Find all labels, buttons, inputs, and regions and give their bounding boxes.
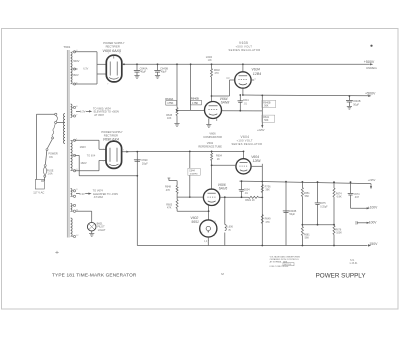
svg-text:FOR CONDITIONS.: FOR CONDITIONS.	[270, 266, 289, 268]
svg-text:5651: 5651	[191, 220, 199, 224]
svg-text:AT NORMAL. SEE: AT NORMAL. SEE	[270, 260, 288, 263]
svg-text:6.3V: 6.3V	[83, 67, 88, 70]
svg-text:UNREG: UNREG	[366, 66, 378, 70]
svg-text:C690: C690	[141, 158, 148, 162]
svg-text:40µF: 40µF	[161, 70, 167, 74]
svg-text:-100V: -100V	[368, 220, 378, 224]
svg-text:470: 470	[215, 72, 220, 75]
svg-text:20µF: 20µF	[142, 162, 148, 166]
svg-text:R640B: R640B	[191, 97, 199, 101]
svg-text:56K: 56K	[264, 105, 269, 107]
svg-text:560V: 560V	[72, 73, 78, 77]
svg-text:S.N.: S.N.	[350, 259, 355, 262]
svg-text:6AU6: 6AU6	[219, 187, 228, 191]
svg-text:POWER SUPPLY: POWER SUPPLY	[316, 273, 367, 280]
svg-text:56K: 56K	[305, 237, 310, 240]
svg-text:+225V: +225V	[257, 128, 265, 132]
svg-text:40µF: 40µF	[140, 70, 146, 74]
svg-text:V634: V634	[251, 67, 259, 71]
svg-text:+500V: +500V	[364, 60, 375, 64]
svg-text:1.6A: 1.6A	[48, 173, 53, 176]
svg-text:50µF: 50µF	[353, 103, 359, 107]
svg-text:+100 VOLT: +100 VOLT	[237, 138, 253, 142]
svg-text:560V: 560V	[73, 59, 79, 63]
svg-text:V635: V635	[239, 41, 248, 45]
svg-text:V604: V604	[241, 135, 250, 139]
svg-text:R641: R641	[263, 117, 269, 119]
svg-text:LIGHT: LIGHT	[98, 228, 106, 232]
svg-text:0.25µF: 0.25µF	[320, 206, 328, 208]
svg-text:6.3V: 6.3V	[79, 192, 85, 196]
svg-text:+100V: +100V	[368, 206, 378, 210]
svg-text:.047: .047	[354, 196, 359, 199]
svg-text:56K: 56K	[264, 120, 269, 122]
svg-text:10h: 10h	[208, 59, 213, 62]
svg-text:6.8K: 6.8K	[337, 196, 342, 199]
svg-text:COMPARATOR: COMPARATOR	[203, 135, 222, 139]
svg-text:R640A: R640A	[165, 97, 173, 101]
svg-text:SERIES REGULATOR: SERIES REGULATOR	[229, 48, 261, 52]
svg-text:39K: 39K	[265, 189, 270, 192]
svg-text:+500V: +500V	[365, 91, 376, 95]
svg-text:47K: 47K	[166, 189, 171, 192]
svg-text:175K: 175K	[192, 101, 198, 105]
svg-text:R601 1K: R601 1K	[245, 199, 255, 202]
svg-text:56K: 56K	[305, 195, 310, 198]
svg-text:AT MAX: AT MAX	[94, 195, 104, 199]
svg-text:175K: 175K	[167, 101, 173, 105]
svg-text:117 V AC: 117 V AC	[33, 190, 44, 194]
svg-text:47K: 47K	[167, 207, 172, 210]
svg-text:C640B: C640B	[353, 99, 361, 103]
svg-text:C644: C644	[189, 170, 195, 172]
svg-text:V606: V606	[209, 131, 216, 135]
svg-text:AT V697: AT V697	[94, 113, 104, 117]
svg-text:160V: 160V	[80, 145, 86, 149]
svg-text:50µF: 50µF	[289, 213, 295, 216]
svg-text:T601: T601	[63, 45, 70, 49]
svg-text:100MFD: 100MFD	[190, 173, 199, 175]
svg-text:1,4,7: 1,4,7	[204, 241, 210, 243]
svg-text:V602: V602	[207, 141, 214, 145]
svg-text:C675: C675	[320, 202, 327, 205]
svg-text:TYPE 181 TIME-MARK GENERATOR: TYPE 181 TIME-MARK GENERATOR	[52, 272, 137, 277]
svg-text:TO 6X4: TO 6X4	[87, 155, 96, 158]
svg-text:47K: 47K	[265, 221, 270, 224]
svg-text:12B4: 12B4	[253, 159, 261, 163]
svg-text:100K: 100K	[336, 232, 342, 235]
svg-text:POWER SUPPLY: POWER SUPPLY	[101, 130, 123, 134]
svg-text:6AN8: 6AN8	[221, 101, 230, 105]
svg-text:10K: 10K	[167, 117, 172, 120]
svg-text:+225V: +225V	[368, 178, 376, 182]
svg-text:6.3V: 6.3V	[80, 110, 86, 114]
svg-text:1K: 1K	[217, 158, 220, 161]
svg-text:160V: 160V	[80, 161, 86, 165]
svg-text:SERIES REGULATOR: SERIES REGULATOR	[232, 142, 263, 146]
svg-text:1-15-61: 1-15-61	[349, 263, 358, 265]
svg-text:12B4: 12B4	[253, 72, 261, 76]
svg-text:REFERENCE TUBE: REFERENCE TUBE	[198, 144, 222, 148]
svg-text:R640B: R640B	[263, 102, 271, 104]
svg-text:+500 VOLT: +500 VOLT	[236, 45, 253, 49]
svg-text:RECTIFIER: RECTIFIER	[106, 44, 120, 48]
svg-text:ON: ON	[49, 156, 53, 159]
